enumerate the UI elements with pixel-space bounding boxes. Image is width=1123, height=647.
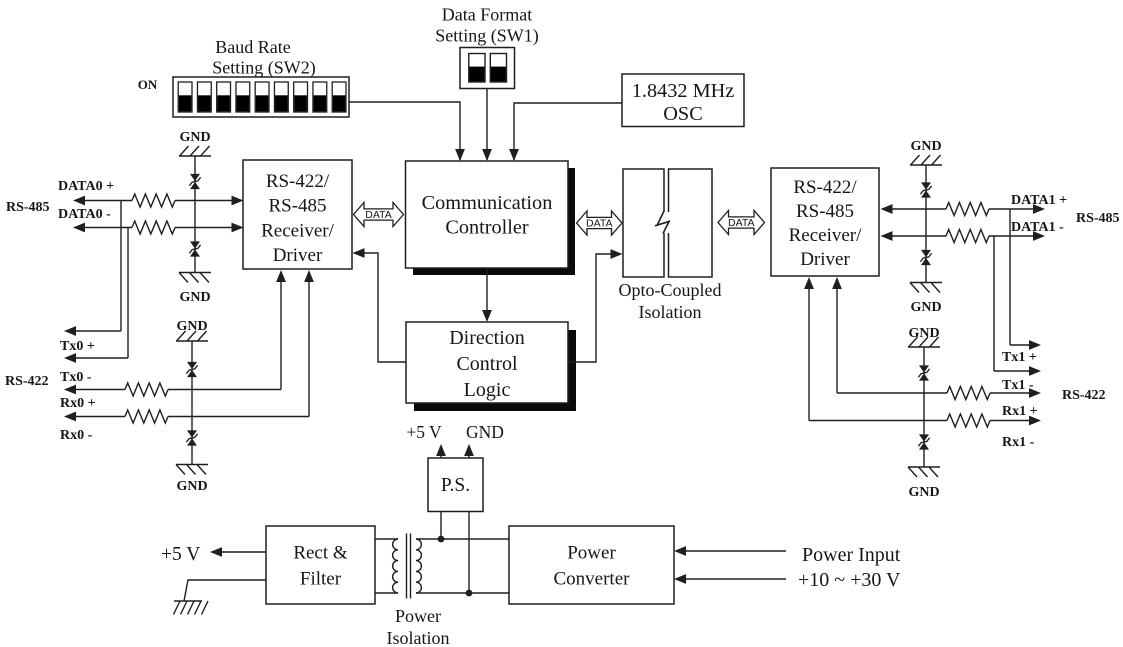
label Tx1 + [1002,350,1037,365]
wire SW1 to Communication Controller [482,89,492,162]
label ON for SW2 [138,77,158,92]
svg-text:GND: GND [176,479,207,494]
svg-text:GND: GND [176,319,207,334]
wire DATA0- branch to Tx0- [127,228,129,359]
svg-text:RS-422/: RS-422/ [266,171,330,192]
wire TVS string right RS-422 [923,347,925,467]
label RS-422 (left) [5,374,49,389]
svg-text:GND: GND [179,290,210,305]
wire SW2 to Communication Controller [349,102,465,161]
DIP switch SW2 (9 positions) [173,77,349,117]
wire Rx0+ riser into left Receiver/Driver [276,270,286,390]
svg-text:DATA1 -: DATA1 - [1011,220,1064,235]
wire transformer to Power Converter (top) [416,538,509,540]
label Rx1 - [1002,435,1035,450]
block U1: Communication Controller [406,161,569,268]
wire Rx1- with terminal [809,416,1041,426]
svg-text:RS-485: RS-485 [796,201,854,222]
block U8: Power Converter [509,526,674,604]
label: Baud Rate Setting (SW2) [212,37,316,79]
label +5 V (P.S. output) [406,422,442,442]
svg-text:GND: GND [910,300,941,315]
svg-text:+5 V: +5 V [406,422,442,442]
svg-text:DATA: DATA [586,218,612,230]
svg-text:Opto-Coupled: Opto-Coupled [619,280,722,300]
TVS diode D1 [189,174,200,189]
wire Communication Controller to Direction Control Logic [482,268,492,322]
wire transformer to Power Converter (bottom) [416,592,509,594]
svg-text:RS-422: RS-422 [5,374,49,389]
svg-text:Filter: Filter [300,569,342,590]
wire Rect&Filter to transformer (bottom) [375,592,398,594]
label GND (P.S. output) [466,422,504,442]
wire TVS string left RS-485 [194,156,196,273]
svg-text:Rx1 -: Rx1 - [1002,435,1035,450]
svg-text:Rx0 -: Rx0 - [60,428,93,443]
svg-text:Receiver/: Receiver/ [261,221,335,242]
svg-text:Power: Power [567,543,616,564]
ground (bottom of left RS-422 protection) [176,465,208,495]
svg-text:DATA0 -: DATA0 - [58,207,111,222]
svg-text:DATA1 +: DATA1 + [1011,193,1067,208]
label +5 V (bottom left) [161,544,200,565]
wire TVS string right RS-485 [925,165,927,283]
resistor on DATA1+ [946,203,989,216]
ground (top of right RS-485 protection) [910,139,942,165]
svg-text:Converter: Converter [554,569,631,590]
TVS diode D7 [918,365,929,380]
wire DATA1- with terminals [881,231,1046,241]
svg-text:Rx1 +: Rx1 + [1002,404,1038,419]
svg-text:Logic: Logic [464,379,511,401]
svg-text:RS-485: RS-485 [1076,211,1120,226]
wire DATA1- branch to Tx1- [993,236,995,371]
svg-text:DATA: DATA [365,209,391,221]
ground (bottom of right RS-422 protection) [908,467,940,500]
label: Power Isolation [387,606,450,647]
wire DATA0- with terminals [73,223,244,233]
ground (bottom of left RS-485 protection) [179,273,211,306]
svg-text:Setting (SW2): Setting (SW2) [212,58,316,79]
wire Direction Control Logic to opto isolation [568,249,623,362]
wire Tx0- terminal [64,353,128,363]
ground (top of left RS-422 protection) [176,319,208,341]
wire P.S. left pin [440,512,442,540]
svg-text:Tx0 +: Tx0 + [60,339,95,354]
block: 1.8432 MHz OSC [622,74,744,127]
wire Rx1- riser into right Receiver/Driver [804,277,814,421]
svg-text:Power: Power [395,606,441,626]
wire P.S. +5V output arrow [436,444,446,458]
earth ground (bottom left) [174,601,209,615]
block U6: P.S. [428,458,483,512]
label Rx0 - [60,428,93,443]
label DATA0 + [58,179,114,194]
wire Rx1+ riser into right Receiver/Driver [832,277,842,393]
transformer T1 secondary winding [416,539,421,593]
svg-text:Power Input: Power Input [802,544,901,566]
svg-text:P.S.: P.S. [441,475,470,496]
label RS-485 (right) [1076,211,1120,226]
svg-text:Tx0 -: Tx0 - [60,370,92,385]
resistor on DATA0+ [132,194,175,207]
block U3: RS-422/RS-485 Receiver/Driver (left) [243,160,352,269]
svg-text:Direction: Direction [449,327,525,349]
resistor on DATA1- [946,230,989,243]
svg-text:Tx1 +: Tx1 + [1002,350,1037,365]
label DATA0 - [58,207,111,222]
svg-text:RS-485: RS-485 [268,196,326,217]
ground (top of left RS-485 protection) [179,130,211,156]
junction dot (GND rail) [466,590,473,597]
label: Opto-Coupled Isolation [619,280,722,322]
svg-text:Isolation: Isolation [387,628,450,647]
block U5: opto-coupled isolation (left cell) [623,169,664,277]
transformer T1 core [407,534,411,599]
resistor on Rx0- [125,410,168,423]
svg-text:RS-422/: RS-422/ [793,177,857,198]
wire power input line 1 [674,546,786,556]
TVS diode D8 [918,434,929,449]
TVS diode D2 [189,241,200,256]
svg-text:GND: GND [179,130,210,145]
svg-text:Setting (SW1): Setting (SW1) [435,26,539,47]
label Tx1 - [1002,378,1034,393]
resistor on Rx0+ [125,383,168,396]
wire Direction Control Logic to left Receiver/Driver [353,248,407,362]
ground (bottom of right RS-485 protection) [910,283,942,316]
wire Tx0+ terminal [64,326,121,336]
svg-text:Baud Rate: Baud Rate [215,37,290,57]
block shadow: Direction Control Logic [414,330,576,411]
svg-text:Data Format: Data Format [442,5,532,25]
svg-text:GND: GND [908,485,939,500]
label Rx0 + [60,396,96,411]
TVS diode D4 [186,430,197,445]
svg-text:+10 ~ +30 V: +10 ~ +30 V [798,569,901,591]
svg-text:GND: GND [910,139,941,154]
svg-text:Driver: Driver [800,249,850,270]
label: Power Input [802,544,901,566]
wire TVS string left RS-422 [191,341,193,465]
wire Tx1+ terminal [1010,340,1041,350]
bus arrow DATA (controller to opto isolation) [577,211,623,235]
resistor on Rx1- [947,414,990,427]
block U7: Rect & Filter [266,526,375,604]
svg-text:DATA: DATA [728,217,754,229]
wire DATA1+ with terminals [881,204,1046,214]
svg-text:GND: GND [908,326,939,341]
label RS-485 (left) [6,200,50,215]
label Rx1 + [1002,404,1038,419]
svg-text:Rect &: Rect & [293,543,348,564]
svg-text:Communication: Communication [422,192,553,214]
svg-text:Receiver/: Receiver/ [789,225,863,246]
label RS-422 (right) [1062,388,1106,403]
svg-text:GND: GND [466,422,504,442]
label DATA1 + [1011,193,1067,208]
svg-text:OSC: OSC [663,103,702,125]
svg-text:ON: ON [138,77,158,92]
wire Rx0- with terminal [64,412,309,422]
svg-text:Rx0 +: Rx0 + [60,396,96,411]
wire Rx0- riser into left Receiver/Driver [304,270,314,417]
wire DATA1+ branch to Tx1+ [1009,209,1011,345]
ground (top of right RS-422 protection) [908,326,940,347]
wire Rect & Filter ground [184,580,266,601]
svg-text:Controller: Controller [445,217,529,239]
wire power input line 2 [674,574,786,584]
svg-text:Driver: Driver [273,245,323,266]
TVS diode D3 [186,362,197,377]
svg-text:1.8432 MHz: 1.8432 MHz [632,80,735,102]
bus arrow DATA (opto isolation to right receiver) [718,211,765,235]
svg-text:Isolation: Isolation [639,302,702,322]
svg-text:+5 V: +5 V [161,544,200,565]
wire OSC to Communication Controller [509,103,622,161]
bus arrow DATA (left receiver to controller) [354,203,404,227]
label: Data Format Setting (SW1) [435,5,539,47]
wire Rect&Filter to transformer (top) [375,538,398,540]
svg-text:DATA0 +: DATA0 + [58,179,114,194]
transformer T1 primary winding [393,539,398,593]
resistor on Rx1+ [947,387,990,400]
svg-text:Control: Control [456,353,518,375]
wire P.S. GND output arrow [464,444,474,458]
wire Rx1+ with terminal [837,388,1041,398]
wire Rx0+ with terminal [64,385,281,395]
label Tx0 - [60,370,92,385]
block U2: Direction Control Logic [406,322,568,403]
label: +10 ~ +30 V [798,569,901,591]
wire DATA0+ with terminals [73,196,244,206]
DIP switch SW1 (2 positions) [460,48,515,89]
label DATA1 - [1011,220,1064,235]
wire P.S. right pin [468,512,470,594]
isolation barrier lightning symbol [655,211,673,234]
TVS diode D5 [920,182,931,197]
resistor on DATA0- [132,221,175,234]
block U4: RS-422/RS-485 Receiver/Driver (right) [771,168,879,276]
TVS diode D6 [920,250,931,265]
svg-text:RS-422: RS-422 [1062,388,1106,403]
label Tx0 + [60,339,95,354]
block U5: opto-coupled isolation (right cell) [669,169,713,277]
wire DATA0+ branch to Tx0+ [120,201,122,332]
wire +5V output of Rect & Filter [210,547,266,557]
junction dot (+5V rail) [438,536,445,543]
block shadow: Communication Controller [413,168,575,275]
svg-text:RS-485: RS-485 [6,200,50,215]
wire Tx1- terminal [994,366,1041,376]
